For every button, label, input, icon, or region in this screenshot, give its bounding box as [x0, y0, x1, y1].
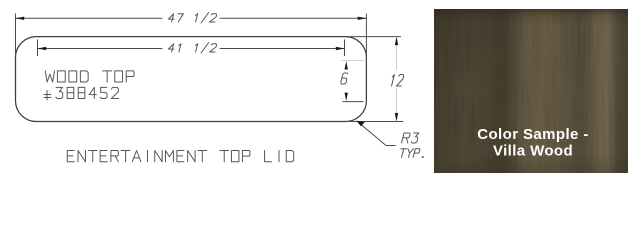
extension line bottom (6 dim) — [343, 101, 364, 103]
dimension line 41 1/2 — [38, 48, 345, 50]
leader arrowhead R3 — [357, 121, 365, 127]
extension tick right (41 1/2 dim) — [344, 40, 346, 57]
arrow left 47 1/2 — [16, 17, 25, 20]
bottom edge extension to 12 dim — [346, 121, 404, 123]
dimension line 12 (vertical) — [396, 37, 398, 122]
label R3 — [402, 133, 420, 143]
arrow left 41 1/2 — [38, 47, 47, 50]
dim text 6 — [340, 73, 348, 84]
leader line R3 (diagonal) — [357, 121, 396, 146]
dim text 47 1/2 — [167, 13, 217, 23]
arrow down 12 dim — [395, 113, 398, 122]
extension line left (47 1/2 dim) — [15, 14, 17, 58]
top edge extension to 12 dim — [346, 36, 401, 38]
arrow down 6 dim — [345, 93, 348, 102]
swatch label Color Sample - Villa Wood — [477, 126, 588, 160]
lid outline (rounded rectangle WOOD TOP panel) — [16, 37, 367, 122]
label TYP. — [399, 149, 425, 158]
arrow right 47 1/2 — [358, 17, 367, 20]
arrow up 6 dim — [345, 61, 348, 70]
arrow up 12 dim — [395, 37, 398, 46]
svg-text:Villa Wood: Villa Wood — [493, 143, 573, 160]
label WOOD TOP — [45, 71, 134, 82]
caption ENTERTAINMENT TOP LID — [67, 151, 293, 162]
label #388452 — [44, 87, 119, 99]
extension tick left (41 1/2 dim) — [37, 40, 39, 57]
dimension line 47 1/2 — [16, 17, 367, 19]
extension line right (47 1/2 dim) — [365, 14, 367, 58]
arrow right 41 1/2 — [336, 47, 345, 50]
svg-text:Color Sample -: Color Sample - — [477, 126, 588, 143]
extension line top (6 dim) — [341, 60, 366, 62]
dim text 41 1/2 — [167, 43, 217, 53]
dim text 12 — [390, 75, 404, 87]
